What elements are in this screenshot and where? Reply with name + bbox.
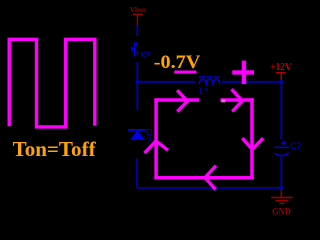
- svg-text:-0.7V: -0.7V: [154, 52, 201, 73]
- svg-text:Vbus: Vbus: [130, 5, 146, 14]
- svg-text:L?: L?: [199, 86, 208, 96]
- svg-text:C?: C?: [290, 141, 301, 151]
- svg-text:+12V: +12V: [270, 62, 292, 73]
- svg-text:?: ?: [146, 136, 151, 146]
- svg-text:K?: K?: [141, 50, 150, 59]
- svg-text:Ton=Toff: Ton=Toff: [13, 137, 97, 161]
- svg-text:GND: GND: [272, 207, 291, 218]
